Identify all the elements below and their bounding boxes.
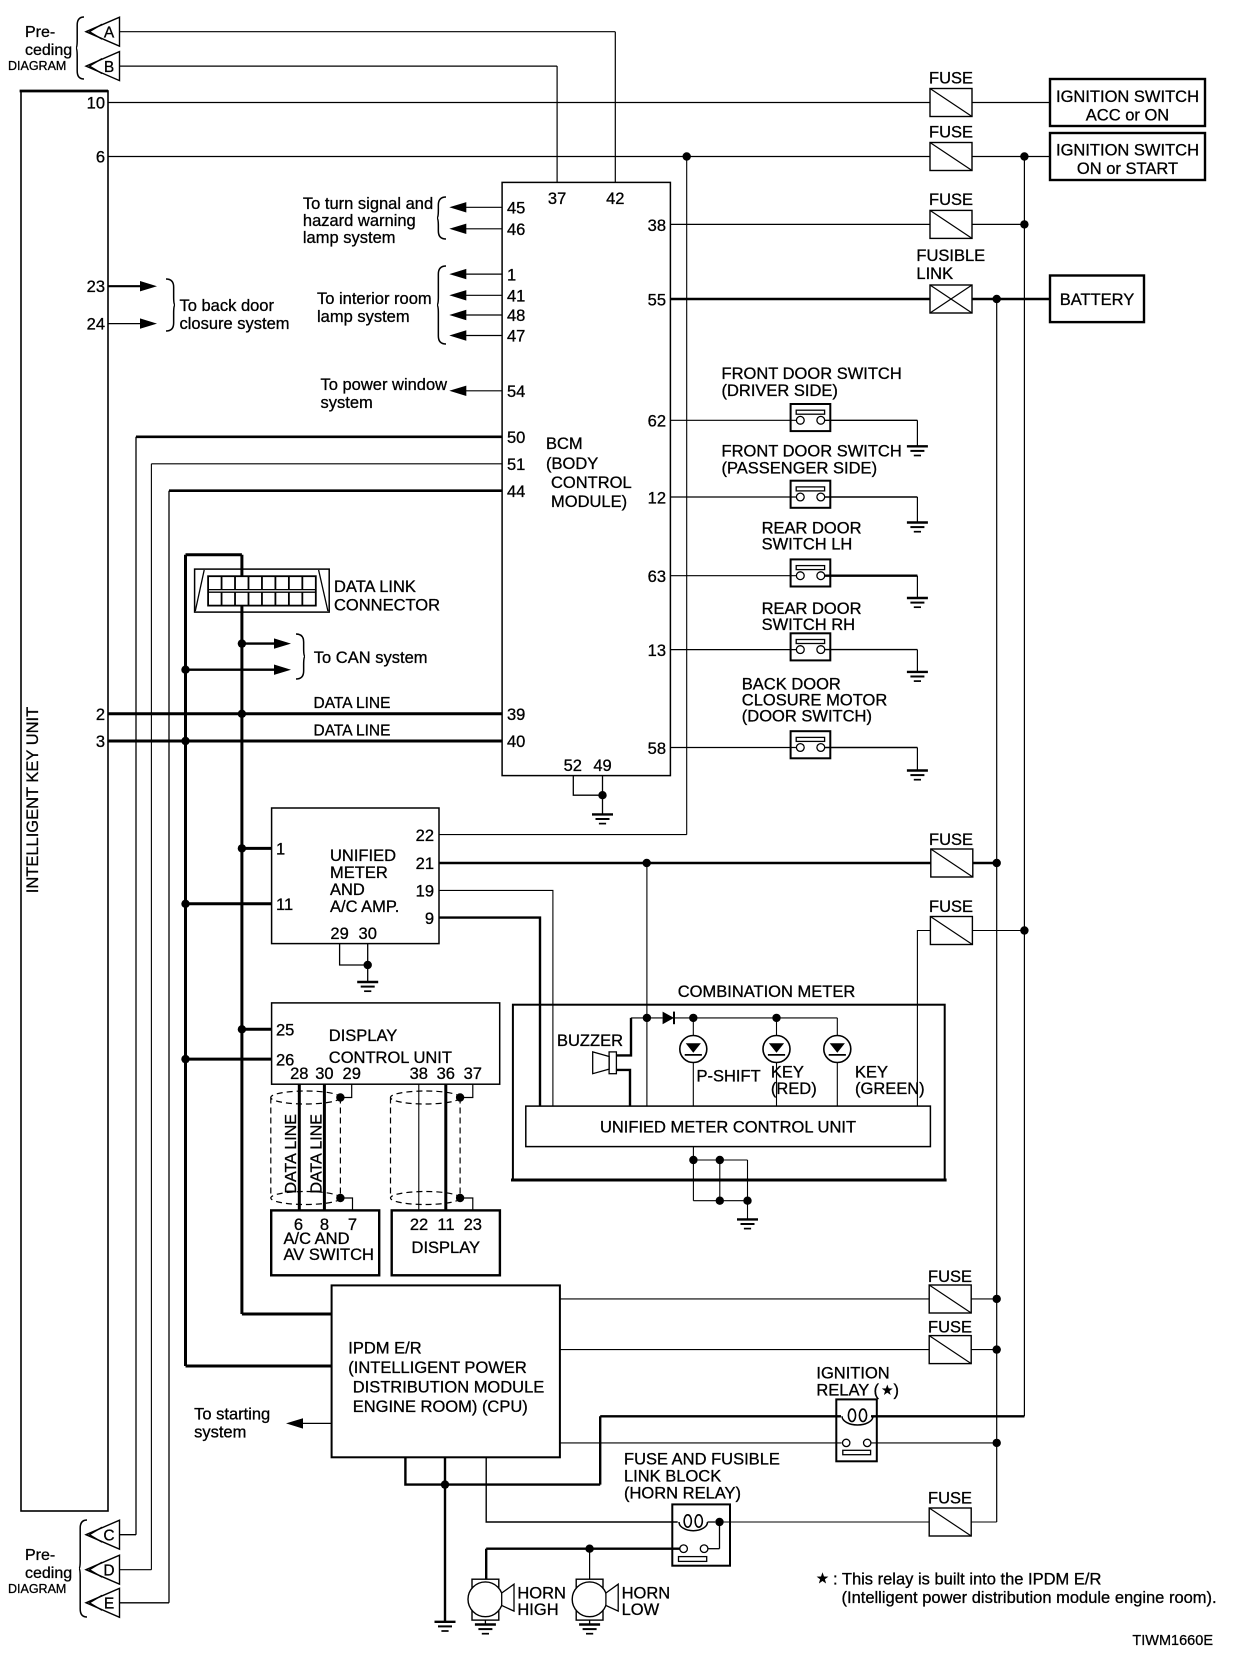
svg-text:36: 36 bbox=[437, 1065, 455, 1083]
svg-text:To back door: To back door bbox=[180, 297, 275, 315]
svg-text:Pre-: Pre- bbox=[25, 24, 55, 41]
svg-text:FUSE: FUSE bbox=[928, 1490, 972, 1508]
svg-text:38: 38 bbox=[410, 1065, 428, 1083]
svg-text:19: 19 bbox=[416, 883, 434, 901]
svg-text:11: 11 bbox=[276, 896, 293, 914]
svg-text:ENGINE ROOM) (CPU): ENGINE ROOM) (CPU) bbox=[353, 1398, 528, 1416]
svg-text:lamp system: lamp system bbox=[303, 229, 396, 247]
svg-text:HORN: HORN bbox=[517, 1585, 566, 1603]
svg-text:38: 38 bbox=[648, 217, 666, 235]
svg-text:28: 28 bbox=[290, 1065, 308, 1083]
svg-text:9: 9 bbox=[425, 910, 434, 928]
svg-text:63: 63 bbox=[648, 568, 666, 586]
svg-text:DIAGRAM: DIAGRAM bbox=[8, 1582, 66, 1596]
svg-text:SWITCH RH: SWITCH RH bbox=[762, 616, 856, 634]
svg-text:29: 29 bbox=[343, 1065, 361, 1083]
svg-text:42: 42 bbox=[606, 190, 624, 208]
svg-text:25: 25 bbox=[276, 1022, 294, 1040]
svg-text:(DOOR SWITCH): (DOOR SWITCH) bbox=[742, 708, 872, 726]
svg-text:INTELLIGENT KEY UNIT: INTELLIGENT KEY UNIT bbox=[24, 707, 42, 893]
svg-text:(HORN RELAY): (HORN RELAY) bbox=[624, 1485, 741, 1503]
svg-text:system: system bbox=[194, 1424, 246, 1442]
svg-text:FUSIBLE: FUSIBLE bbox=[916, 247, 985, 265]
svg-text:(BODY: (BODY bbox=[546, 455, 598, 473]
svg-text:FUSE: FUSE bbox=[929, 124, 973, 142]
svg-text:C: C bbox=[103, 1528, 114, 1545]
svg-text:UNIFIED: UNIFIED bbox=[330, 847, 396, 865]
svg-text:DATA LINE: DATA LINE bbox=[283, 1114, 300, 1193]
svg-text:30: 30 bbox=[315, 1065, 333, 1083]
svg-text:system: system bbox=[321, 394, 373, 412]
svg-text:FUSE: FUSE bbox=[929, 191, 973, 209]
svg-text:24: 24 bbox=[87, 316, 105, 334]
svg-text:FUSE: FUSE bbox=[929, 70, 973, 88]
svg-text:To interior room: To interior room bbox=[317, 290, 432, 308]
svg-text:AV SWITCH: AV SWITCH bbox=[284, 1246, 374, 1264]
svg-text:ACC or ON: ACC or ON bbox=[1086, 107, 1169, 125]
svg-text:B: B bbox=[104, 59, 114, 76]
svg-text:1: 1 bbox=[276, 841, 285, 859]
svg-text:(DRIVER SIDE): (DRIVER SIDE) bbox=[722, 382, 838, 400]
svg-text:11: 11 bbox=[437, 1216, 454, 1234]
svg-text:: This relay is built into the: : This relay is built into the IPDM E/R bbox=[833, 1571, 1101, 1589]
svg-text:47: 47 bbox=[507, 328, 525, 346]
svg-text:HIGH: HIGH bbox=[517, 1601, 558, 1619]
svg-text:D: D bbox=[103, 1563, 114, 1580]
svg-text:RELAY (: RELAY ( bbox=[816, 1382, 879, 1400]
svg-text:METER: METER bbox=[330, 864, 388, 882]
svg-text:FUSE AND FUSIBLE: FUSE AND FUSIBLE bbox=[624, 1451, 780, 1469]
svg-text:A: A bbox=[104, 25, 115, 42]
svg-text:SWITCH LH: SWITCH LH bbox=[762, 536, 853, 554]
svg-text:To power window: To power window bbox=[321, 376, 448, 394]
svg-text:58: 58 bbox=[648, 740, 666, 758]
svg-text:IGNITION SWITCH: IGNITION SWITCH bbox=[1056, 88, 1199, 106]
svg-text:40: 40 bbox=[507, 733, 525, 751]
svg-text:50: 50 bbox=[507, 429, 525, 447]
svg-text:IPDM E/R: IPDM E/R bbox=[348, 1340, 421, 1358]
svg-text:): ) bbox=[894, 1382, 900, 1400]
svg-text:22: 22 bbox=[410, 1216, 428, 1234]
svg-text:LINK BLOCK: LINK BLOCK bbox=[624, 1468, 721, 1486]
svg-text:41: 41 bbox=[507, 288, 525, 306]
svg-text:10: 10 bbox=[87, 94, 105, 112]
svg-text:hazard warning: hazard warning bbox=[303, 212, 416, 230]
svg-text:29: 29 bbox=[330, 925, 348, 943]
svg-text:FUSE: FUSE bbox=[929, 831, 973, 849]
svg-text:39: 39 bbox=[507, 706, 525, 724]
svg-text:FUSE: FUSE bbox=[929, 898, 973, 916]
svg-text:KEY: KEY bbox=[771, 1064, 804, 1082]
svg-text:E: E bbox=[104, 1596, 114, 1613]
svg-text:54: 54 bbox=[507, 383, 525, 401]
svg-text:44: 44 bbox=[507, 483, 525, 501]
svg-text:FRONT DOOR SWITCH: FRONT DOOR SWITCH bbox=[722, 365, 902, 383]
svg-text:ceding: ceding bbox=[25, 1565, 72, 1582]
svg-text:2: 2 bbox=[96, 706, 105, 724]
svg-text:(PASSENGER SIDE): (PASSENGER SIDE) bbox=[722, 460, 878, 478]
svg-text:DATA LINE: DATA LINE bbox=[314, 695, 391, 712]
svg-text:52: 52 bbox=[564, 757, 582, 775]
svg-text:(INTELLIGENT POWER: (INTELLIGENT POWER bbox=[348, 1359, 527, 1377]
svg-text:(Intelligent power distributio: (Intelligent power distribution module e… bbox=[842, 1589, 1217, 1607]
svg-text:To CAN system: To CAN system bbox=[314, 649, 428, 667]
svg-text:45: 45 bbox=[507, 200, 525, 218]
svg-text:To starting: To starting bbox=[194, 1406, 270, 1424]
svg-text:23: 23 bbox=[464, 1216, 482, 1234]
svg-text:DISPLAY: DISPLAY bbox=[412, 1239, 480, 1257]
svg-text:DATA LINK: DATA LINK bbox=[334, 578, 416, 596]
svg-text:KEY: KEY bbox=[855, 1064, 888, 1082]
svg-text:CONTROL: CONTROL bbox=[551, 474, 632, 492]
svg-text:DATA LINE: DATA LINE bbox=[314, 722, 391, 739]
svg-text:BCM: BCM bbox=[546, 435, 583, 453]
svg-text:(GREEN): (GREEN) bbox=[855, 1080, 925, 1098]
svg-text:DATA LINE: DATA LINE bbox=[309, 1114, 326, 1193]
svg-text:ON or START: ON or START bbox=[1077, 160, 1178, 178]
svg-text:46: 46 bbox=[507, 221, 525, 239]
svg-text:12: 12 bbox=[648, 489, 666, 507]
svg-text:48: 48 bbox=[507, 307, 525, 325]
svg-text:6: 6 bbox=[96, 148, 105, 166]
svg-text:To turn signal and: To turn signal and bbox=[303, 195, 433, 213]
svg-text:A/C AMP.: A/C AMP. bbox=[330, 898, 399, 916]
svg-text:DISPLAY: DISPLAY bbox=[329, 1027, 397, 1045]
svg-text:LINK: LINK bbox=[916, 265, 953, 283]
svg-text:UNIFIED METER CONTROL UNIT: UNIFIED METER CONTROL UNIT bbox=[600, 1119, 856, 1137]
svg-text:lamp system: lamp system bbox=[317, 308, 410, 326]
svg-text:37: 37 bbox=[548, 190, 566, 208]
svg-text:49: 49 bbox=[593, 757, 611, 775]
svg-text:ceding: ceding bbox=[25, 42, 72, 59]
svg-text:13: 13 bbox=[648, 642, 666, 660]
svg-text:LOW: LOW bbox=[622, 1601, 660, 1619]
svg-text:23: 23 bbox=[87, 278, 105, 296]
svg-text:55: 55 bbox=[648, 291, 666, 309]
svg-text:62: 62 bbox=[648, 413, 666, 431]
svg-text:FRONT DOOR SWITCH: FRONT DOOR SWITCH bbox=[722, 443, 902, 461]
svg-text:TIWM1660E: TIWM1660E bbox=[1132, 1633, 1213, 1649]
svg-text:AND: AND bbox=[330, 881, 365, 899]
svg-text:FUSE: FUSE bbox=[928, 1319, 972, 1337]
svg-text:51: 51 bbox=[507, 456, 525, 474]
svg-text:(RED): (RED) bbox=[771, 1080, 817, 1098]
svg-text:IGNITION SWITCH: IGNITION SWITCH bbox=[1056, 142, 1199, 160]
svg-text:21: 21 bbox=[416, 855, 434, 873]
svg-text:30: 30 bbox=[359, 925, 377, 943]
svg-text:DIAGRAM: DIAGRAM bbox=[8, 59, 66, 73]
svg-text:CONNECTOR: CONNECTOR bbox=[334, 597, 440, 615]
svg-text:DISTRIBUTION MODULE: DISTRIBUTION MODULE bbox=[353, 1379, 545, 1397]
svg-text:MODULE): MODULE) bbox=[551, 493, 627, 511]
svg-text:BUZZER: BUZZER bbox=[557, 1032, 623, 1050]
svg-text:37: 37 bbox=[464, 1065, 482, 1083]
svg-text:COMBINATION METER: COMBINATION METER bbox=[678, 983, 856, 1001]
svg-text:BATTERY: BATTERY bbox=[1060, 291, 1135, 309]
svg-text:3: 3 bbox=[96, 733, 105, 751]
svg-text:HORN: HORN bbox=[622, 1585, 671, 1603]
svg-text:IGNITION: IGNITION bbox=[816, 1365, 889, 1383]
svg-text:FUSE: FUSE bbox=[928, 1268, 972, 1286]
svg-text:P-SHIFT: P-SHIFT bbox=[697, 1068, 761, 1086]
svg-text:1: 1 bbox=[507, 266, 516, 284]
svg-text:22: 22 bbox=[416, 827, 434, 845]
svg-text:closure system: closure system bbox=[180, 315, 290, 333]
svg-text:Pre-: Pre- bbox=[25, 1547, 55, 1564]
